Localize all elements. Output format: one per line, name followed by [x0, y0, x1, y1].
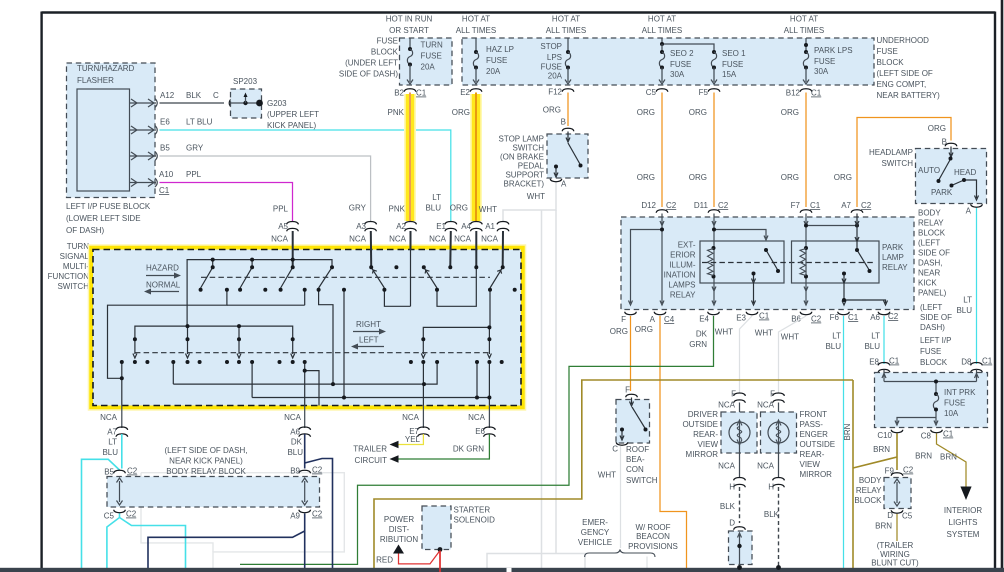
- connector E4 relay block bottom: [708, 312, 720, 315]
- svg-text:OR START: OR START: [389, 26, 429, 35]
- connector C8 C1: [931, 430, 943, 433]
- svg-text:TURN: TURN: [421, 41, 443, 50]
- svg-text:C8: C8: [921, 432, 932, 441]
- svg-text:DIST-: DIST-: [389, 525, 410, 534]
- svg-text:OUTSIDE: OUTSIDE: [682, 420, 718, 429]
- svg-text:SWITCH: SWITCH: [881, 159, 913, 168]
- svg-text:LT: LT: [963, 296, 972, 305]
- connector A6 C2 relay block bottom: [878, 312, 890, 315]
- svg-text:LT BLU: LT BLU: [186, 118, 213, 127]
- svg-text:DASH,: DASH,: [918, 259, 942, 268]
- svg-text:D8: D8: [961, 358, 972, 367]
- wire LT BLU headlamp A to D8: [976, 208, 978, 364]
- svg-text:FUSE: FUSE: [944, 399, 965, 408]
- svg-text:A6: A6: [290, 428, 300, 437]
- wire WHT gray route bottom left: [141, 473, 344, 569]
- svg-text:GRN: GRN: [689, 340, 707, 349]
- svg-text:SEO 1: SEO 1: [722, 49, 746, 58]
- svg-text:INTERIOR: INTERIOR: [944, 506, 982, 515]
- svg-text:(LEFT: (LEFT: [920, 303, 942, 312]
- wire ORG relay A down to bottom: [660, 316, 687, 569]
- svg-text:C: C: [612, 445, 618, 454]
- svg-text:ORG: ORG: [635, 325, 653, 334]
- entries: [370, 231, 372, 266]
- svg-text:ORG: ORG: [689, 173, 707, 182]
- fuse SEO 2 30A: [661, 44, 663, 52]
- svg-text:ORG: ORG: [610, 327, 628, 336]
- connector D12 C2: [656, 210, 668, 213]
- svg-text:A: A: [561, 180, 567, 189]
- svg-text:C1: C1: [889, 357, 900, 366]
- svg-text:ENGER: ENGER: [800, 430, 829, 439]
- svg-text:C1: C1: [159, 186, 170, 195]
- svg-text:E6: E6: [160, 118, 170, 127]
- svg-text:BRN: BRN: [915, 452, 932, 461]
- svg-text:C1: C1: [416, 89, 427, 98]
- page frame left border: [40, 12, 42, 569]
- svg-text:D: D: [887, 511, 893, 520]
- svg-text:BLU: BLU: [825, 342, 841, 351]
- svg-text:LT: LT: [108, 438, 117, 447]
- power distribution arrow: [393, 545, 404, 554]
- wire BRN C10 branch: [374, 380, 897, 569]
- fuse STOP LPS 20A: [567, 38, 569, 52]
- svg-text:FUSE: FUSE: [377, 37, 398, 46]
- connector C5: [656, 89, 668, 92]
- svg-text:PARK: PARK: [931, 188, 953, 197]
- svg-text:C1: C1: [810, 201, 821, 210]
- driver mirror D connector box: [729, 531, 753, 565]
- svg-text:STARTER: STARTER: [454, 506, 491, 515]
- svg-text:A3: A3: [356, 222, 366, 231]
- svg-text:C2: C2: [888, 312, 899, 321]
- svg-text:OUTSIDE: OUTSIDE: [800, 440, 836, 449]
- mech dashed line 2: [135, 352, 490, 354]
- svg-text:F7: F7: [791, 201, 801, 210]
- wire WHT E3 to driver mirror: [740, 316, 753, 393]
- svg-text:NCA: NCA: [271, 235, 289, 244]
- svg-text:10A: 10A: [944, 409, 959, 418]
- svg-text:F: F: [625, 386, 630, 395]
- fuse HAZ LP 20A: [475, 38, 477, 52]
- svg-text:C5: C5: [902, 512, 913, 521]
- svg-text:PEDAL: PEDAL: [518, 162, 545, 171]
- svg-text:ORG: ORG: [452, 108, 470, 117]
- svg-text:C1: C1: [943, 430, 954, 439]
- svg-text:BODY: BODY: [918, 209, 941, 218]
- svg-text:F: F: [621, 315, 626, 324]
- svg-text:HEADLAMP: HEADLAMP: [869, 148, 913, 157]
- svg-text:ORG: ORG: [637, 108, 655, 117]
- svg-text:C: C: [213, 91, 219, 100]
- wire ORG F12 to stop lamp switch B: [567, 93, 569, 127]
- svg-text:NCA: NCA: [454, 235, 472, 244]
- connector A C4 relay block bottom: [654, 312, 666, 315]
- I/P fuse block box (TURN FUSE): [400, 38, 453, 85]
- svg-text:HEAD: HEAD: [954, 168, 976, 177]
- svg-text:PARK LPS: PARK LPS: [814, 46, 853, 55]
- svg-text:BLK: BLK: [764, 510, 780, 519]
- svg-text:TURN: TURN: [67, 242, 89, 251]
- svg-text:ALL TIMES: ALL TIMES: [642, 26, 682, 35]
- connector A4: [470, 222, 482, 232]
- svg-text:PNK: PNK: [389, 205, 406, 214]
- svg-text:W/ ROOF: W/ ROOF: [635, 523, 670, 532]
- svg-text:BLU: BLU: [864, 342, 880, 351]
- svg-text:NCA: NCA: [757, 401, 775, 410]
- svg-text:(TRAILER: (TRAILER: [877, 541, 914, 550]
- svg-text:NCA: NCA: [349, 235, 367, 244]
- svg-text:DK: DK: [696, 330, 708, 339]
- svg-text:C1: C1: [759, 312, 770, 321]
- svg-text:DRIVER: DRIVER: [688, 410, 718, 419]
- PARK relay coil: [804, 246, 808, 250]
- svg-text:PROVISIONS: PROVISIONS: [628, 542, 678, 551]
- svg-text:BRN: BRN: [873, 445, 890, 454]
- svg-text:A4: A4: [461, 222, 471, 231]
- svg-text:FRONT: FRONT: [800, 410, 828, 419]
- svg-text:B2: B2: [394, 89, 404, 98]
- connector A headlamp switch: [971, 204, 983, 207]
- svg-text:ROOF: ROOF: [626, 445, 649, 454]
- svg-text:BLOCK: BLOCK: [877, 58, 905, 67]
- svg-text:OF DASH): OF DASH): [66, 226, 105, 235]
- svg-text:LT: LT: [432, 193, 441, 202]
- EXT relay coil: [712, 246, 716, 250]
- svg-text:D12: D12: [641, 201, 656, 210]
- svg-text:E1: E1: [436, 222, 446, 231]
- wire ORG B12 to F7: [805, 93, 807, 208]
- wire BRN C8 to interior lights: [937, 434, 967, 488]
- svg-text:WHT: WHT: [598, 471, 616, 480]
- svg-text:CON: CON: [626, 465, 644, 474]
- connector E7: [418, 427, 430, 437]
- svg-text:ERIOR: ERIOR: [670, 251, 696, 260]
- svg-text:NEAR KICK PANEL): NEAR KICK PANEL): [169, 457, 243, 466]
- svg-text:SEO 2: SEO 2: [670, 49, 694, 58]
- connector D8 C1: [971, 363, 983, 373]
- svg-text:(LEFT SIDE OF DASH,: (LEFT SIDE OF DASH,: [165, 446, 248, 455]
- svg-text:NCA: NCA: [757, 462, 775, 471]
- svg-text:A7: A7: [107, 428, 117, 437]
- relay block internal wiring D12: [629, 214, 665, 306]
- svg-text:E8: E8: [869, 358, 879, 367]
- svg-text:BEACON: BEACON: [636, 532, 670, 541]
- svg-text:FUSE: FUSE: [920, 347, 941, 356]
- svg-text:NCA: NCA: [389, 235, 407, 244]
- svg-text:ILLUM-: ILLUM-: [669, 261, 696, 270]
- svg-text:PPL: PPL: [186, 170, 202, 179]
- svg-text:ORG: ORG: [781, 108, 799, 117]
- wire DK BLU A6 to B9 and branches: [148, 434, 333, 569]
- svg-text:NCA: NCA: [481, 235, 499, 244]
- U links: [384, 288, 410, 306]
- svg-text:ORG: ORG: [543, 106, 561, 115]
- svg-text:VEHICLE: VEHICLE: [578, 538, 612, 547]
- wiper stubs: [134, 339, 136, 354]
- fuse TURN 20A: [409, 38, 411, 49]
- svg-text:HOT AT: HOT AT: [462, 15, 490, 24]
- svg-text:KICK PANEL): KICK PANEL): [267, 121, 317, 130]
- wire ORG relay F to roof beacon F: [630, 316, 632, 391]
- svg-text:LPS: LPS: [547, 53, 562, 62]
- svg-text:C2: C2: [718, 201, 729, 210]
- svg-text:SWITCH: SWITCH: [512, 144, 544, 153]
- svg-text:B5: B5: [104, 468, 114, 477]
- svg-text:POWER: POWER: [384, 515, 414, 524]
- svg-text:B5: B5: [160, 144, 170, 153]
- svg-text:SIDE OF: SIDE OF: [920, 313, 952, 322]
- svg-text:C2: C2: [903, 466, 914, 475]
- svg-text:TURN/HAZARD: TURN/HAZARD: [77, 64, 135, 73]
- park lamp relay: [792, 241, 880, 283]
- mirror ground dots on bar: [737, 565, 742, 570]
- svg-text:D: D: [729, 519, 735, 528]
- svg-text:UNDERHOOD: UNDERHOOD: [877, 36, 930, 45]
- svg-text:A12: A12: [160, 91, 175, 100]
- svg-text:RED: RED: [376, 556, 393, 565]
- svg-text:BRN: BRN: [843, 423, 852, 440]
- svg-text:RIBUTION: RIBUTION: [380, 535, 418, 544]
- wire ORG A7 to headlamp switch B: [857, 118, 951, 208]
- svg-text:HAZ LP: HAZ LP: [486, 45, 514, 54]
- wire BLK passenger mirror H down: [778, 487, 780, 568]
- svg-text:SWITCH: SWITCH: [626, 476, 658, 485]
- svg-text:NCA: NCA: [100, 413, 118, 422]
- svg-text:WHT: WHT: [755, 329, 773, 338]
- svg-text:PANEL): PANEL): [918, 289, 947, 298]
- svg-text:BLU: BLU: [425, 204, 441, 213]
- svg-text:A1: A1: [485, 222, 495, 231]
- svg-text:C5: C5: [646, 88, 657, 97]
- svg-text:BRN: BRN: [875, 522, 892, 531]
- highlighted PNK wire B2 to A2: [404, 94, 416, 221]
- wire PPL A10 to A5: [160, 183, 293, 222]
- svg-text:PARK: PARK: [882, 243, 904, 252]
- relay block internal wiring F7: [804, 214, 857, 306]
- connector F12: [562, 89, 574, 92]
- svg-text:(ON BRAKE: (ON BRAKE: [500, 153, 544, 162]
- svg-text:C5: C5: [104, 512, 115, 521]
- svg-text:BLOCK: BLOCK: [854, 496, 882, 505]
- connector A6: [299, 427, 311, 437]
- fuse INT PRK 10A: [933, 392, 938, 412]
- switch internal wiring: [108, 231, 504, 406]
- svg-text:STOP: STOP: [540, 42, 562, 51]
- svg-text:NCA: NCA: [718, 401, 736, 410]
- svg-text:LAMPS: LAMPS: [668, 281, 695, 290]
- svg-text:A9: A9: [290, 512, 300, 521]
- svg-text:BLU: BLU: [956, 306, 972, 315]
- svg-text:VIEW: VIEW: [800, 460, 821, 469]
- svg-text:RELAY: RELAY: [856, 486, 882, 495]
- turn/hazard flasher module box: [67, 63, 156, 198]
- wire WHT stop lamp A to A1 and down: [487, 183, 585, 569]
- svg-text:A: A: [966, 207, 972, 216]
- svg-text:RELAY: RELAY: [882, 263, 908, 272]
- flasher pin E6: [130, 126, 158, 135]
- svg-text:F6: F6: [830, 313, 840, 322]
- svg-text:C4: C4: [664, 315, 675, 324]
- svg-text:PPL: PPL: [273, 205, 289, 214]
- svg-text:LEFT I/P: LEFT I/P: [920, 336, 951, 345]
- svg-text:DASH): DASH): [920, 323, 945, 332]
- svg-text:BLK: BLK: [186, 91, 202, 100]
- switch bottom exit wires: [121, 406, 123, 429]
- svg-text:ALL TIMES: ALL TIMES: [546, 26, 586, 35]
- svg-text:(LEFT: (LEFT: [918, 239, 940, 248]
- connector B9 C2: [299, 470, 311, 473]
- svg-text:B9: B9: [290, 467, 300, 476]
- svg-text:A2: A2: [396, 222, 406, 231]
- jog net: [319, 290, 333, 384]
- wire LT BLU A6 to E8: [883, 316, 885, 364]
- svg-text:ORG: ORG: [928, 124, 946, 133]
- connector E1: [445, 222, 457, 232]
- interior lights arrow: [960, 487, 971, 501]
- connector E6: [484, 427, 496, 437]
- svg-text:BLUNT CUT): BLUNT CUT): [871, 559, 919, 568]
- svg-text:A5: A5: [278, 222, 288, 231]
- svg-text:ORG: ORG: [450, 204, 468, 213]
- turn signal multi-function switch box with yellow highlight: [93, 250, 521, 406]
- contact drops: [121, 362, 123, 406]
- PARK relay switch: [842, 214, 888, 306]
- wire RED to starter solenoid: [399, 551, 441, 572]
- connector E2: [470, 89, 482, 92]
- svg-text:HOT AT: HOT AT: [790, 15, 818, 24]
- wire DK GRN E4 routing: [240, 316, 714, 564]
- svg-text:FUSE: FUSE: [670, 60, 691, 69]
- connector F relay block bottom: [625, 312, 637, 315]
- svg-text:SOLENOID: SOLENOID: [454, 516, 496, 525]
- svg-text:INATION: INATION: [664, 271, 696, 280]
- svg-text:NORMAL: NORMAL: [146, 281, 181, 290]
- wire YEL E7 to trailer circuit: [398, 434, 423, 445]
- svg-text:STOP LAMP: STOP LAMP: [499, 135, 545, 144]
- starter solenoid: [422, 506, 451, 550]
- hazard blades: [201, 267, 213, 288]
- adjacent page border: [1001, 0, 1004, 572]
- flasher pin B5: [130, 152, 158, 161]
- svg-text:RIGHT: RIGHT: [356, 320, 381, 329]
- brace under labels: [585, 550, 655, 558]
- svg-text:SP203: SP203: [233, 77, 258, 86]
- wire RED crossing bar: [439, 551, 441, 572]
- svg-text:A10: A10: [159, 170, 174, 179]
- svg-text:PASS-: PASS-: [800, 420, 824, 429]
- svg-text:F12: F12: [548, 88, 562, 97]
- connector A stop lamp switch: [550, 179, 562, 182]
- svg-text:CIRCUIT: CIRCUIT: [355, 456, 388, 465]
- svg-text:ORG: ORG: [781, 173, 799, 182]
- svg-text:PNK: PNK: [388, 108, 405, 117]
- left I/P fuse block (INT PRK fuse): [875, 373, 988, 428]
- svg-text:BLOCK: BLOCK: [371, 48, 399, 57]
- svg-text:BODY RELAY BLOCK: BODY RELAY BLOCK: [166, 467, 246, 476]
- connector A7: [116, 427, 128, 437]
- svg-text:(LEFT SIDE OF: (LEFT SIDE OF: [877, 69, 933, 78]
- svg-text:EXT-: EXT-: [678, 241, 696, 250]
- svg-text:BLU: BLU: [102, 448, 118, 457]
- svg-text:ORG: ORG: [689, 108, 707, 117]
- connector B6 C2 relay block bottom: [800, 312, 812, 315]
- stop lamp switch: [547, 134, 588, 178]
- svg-text:A: A: [650, 315, 656, 324]
- svg-text:F5: F5: [699, 88, 709, 97]
- connector B12 C1: [800, 89, 812, 92]
- svg-text:SIDE OF: SIDE OF: [918, 249, 950, 258]
- ground point G203: [256, 100, 263, 107]
- svg-text:BRN: BRN: [940, 453, 957, 462]
- right blades: [371, 267, 384, 288]
- svg-text:BEA-: BEA-: [626, 455, 645, 464]
- svg-text:BLOCK: BLOCK: [920, 358, 948, 367]
- x344 drop: [343, 290, 345, 398]
- svg-text:ALL TIMES: ALL TIMES: [456, 26, 496, 35]
- svg-text:15A: 15A: [722, 70, 737, 79]
- svg-text:LIGHTS: LIGHTS: [949, 518, 978, 527]
- connector E3 C1 relay block bottom: [746, 312, 758, 315]
- flasher pin A10: [130, 178, 158, 187]
- second bus: [135, 326, 293, 337]
- svg-text:(UPPER LEFT: (UPPER LEFT: [267, 110, 319, 119]
- svg-text:NEAR: NEAR: [918, 269, 940, 278]
- svg-text:SIGNAL: SIGNAL: [60, 252, 90, 261]
- horizontal nets: [173, 383, 424, 385]
- svg-text:NCA: NCA: [429, 235, 447, 244]
- svg-text:NEAR BATTERY): NEAR BATTERY): [877, 91, 941, 100]
- connector E8 C1: [878, 363, 890, 373]
- svg-text:A6: A6: [870, 313, 880, 322]
- mech dashed line 1: [201, 276, 490, 278]
- svg-text:C2: C2: [811, 315, 822, 324]
- svg-text:C1: C1: [848, 313, 859, 322]
- svg-text:LEFT I/P FUSE BLOCK: LEFT I/P FUSE BLOCK: [66, 202, 151, 211]
- svg-text:TRAILER: TRAILER: [353, 445, 387, 454]
- svg-text:KICK: KICK: [918, 279, 937, 288]
- svg-text:ENG COMPT,: ENG COMPT,: [877, 80, 927, 89]
- exterior illumination lamps relay: [700, 241, 784, 283]
- connector A3: [365, 222, 377, 232]
- fuse PARK LPS 30A: [805, 38, 807, 52]
- svg-text:ALL TIMES: ALL TIMES: [784, 26, 824, 35]
- relay mechanical link dashes: [702, 262, 875, 264]
- svg-text:B12: B12: [786, 89, 801, 98]
- svg-text:MIRROR: MIRROR: [800, 470, 833, 479]
- svg-text:GRY: GRY: [186, 144, 204, 153]
- svg-text:INT PRK: INT PRK: [944, 388, 976, 397]
- svg-text:C2: C2: [312, 510, 323, 519]
- wire WHT roof beacon C to brace: [620, 446, 622, 548]
- svg-text:C1: C1: [982, 357, 993, 366]
- svg-text:C2: C2: [861, 201, 872, 210]
- svg-text:LT: LT: [871, 332, 880, 341]
- svg-text:DK: DK: [291, 438, 303, 447]
- svg-text:E6: E6: [475, 427, 485, 436]
- svg-text:C2: C2: [666, 201, 677, 210]
- svg-text:FLASHER: FLASHER: [77, 76, 114, 85]
- connector A1: [497, 222, 509, 232]
- svg-text:RELAY: RELAY: [670, 291, 696, 300]
- svg-text:ORG: ORG: [637, 173, 655, 182]
- wire LT BLU A7 to B5 and branches: [82, 434, 186, 569]
- svg-text:20A: 20A: [421, 63, 436, 72]
- svg-text:GENCY: GENCY: [581, 528, 610, 537]
- svg-text:WHT: WHT: [715, 328, 733, 337]
- svg-text:C2: C2: [127, 467, 138, 476]
- svg-text:VIEW: VIEW: [698, 440, 719, 449]
